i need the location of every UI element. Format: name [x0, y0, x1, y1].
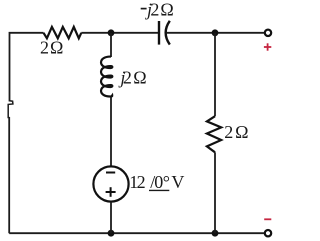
node dot top-center — [108, 29, 115, 36]
underline of angle notation — [149, 189, 169, 191]
svg-text:Ω: Ω — [160, 0, 173, 20]
plus sign red (terminal polarity) — [264, 43, 271, 50]
plus sign inside source — [106, 187, 116, 197]
wire resistor to bottom-right node — [214, 152, 216, 233]
svg-text:2: 2 — [137, 172, 146, 192]
svg-text:2: 2 — [150, 0, 159, 20]
svg-text:Ω: Ω — [133, 67, 146, 87]
wire source to bottom node — [110, 202, 112, 233]
minus sign inside source — [106, 172, 115, 174]
node dot bottom-center — [108, 230, 115, 237]
label −j2 Ω (capacitor) minus stroke — [141, 8, 147, 10]
svg-text:2: 2 — [40, 38, 49, 58]
terminal circle top-right — [265, 30, 271, 36]
wire resistor to capacitor — [81, 32, 158, 34]
bottom wire — [9, 232, 268, 234]
left wire lower segment — [8, 117, 10, 233]
inductor L j2Ω coil — [101, 57, 112, 97]
resistor R right 2Ω — [207, 116, 221, 152]
wire inductor to source — [110, 97, 112, 166]
wire capacitor to right node — [166, 32, 268, 34]
svg-text:2: 2 — [123, 67, 132, 87]
capacitor C −j2Ω curved plate — [166, 21, 170, 45]
svg-text:2: 2 — [224, 122, 233, 142]
wire top-left segment — [10, 32, 44, 34]
svg-text:V: V — [171, 172, 184, 192]
left wire upper segment — [9, 33, 11, 102]
terminal circle bottom-right — [265, 230, 271, 236]
capacitor C −j2Ω left plate — [158, 21, 160, 45]
wire top node to inductor — [110, 33, 112, 57]
resistor R top 2Ω — [44, 27, 82, 38]
wire right node down to resistor — [214, 33, 216, 116]
voltage source V1 circle — [93, 166, 128, 201]
minus sign red (terminal polarity) — [264, 218, 271, 220]
svg-text:Ω: Ω — [50, 38, 63, 58]
left wire artifact hook — [8, 101, 13, 118]
svg-text:Ω: Ω — [235, 122, 248, 142]
svg-text:°: ° — [163, 172, 170, 192]
node dot top-right — [212, 29, 219, 36]
node dot bottom-right — [212, 230, 219, 237]
